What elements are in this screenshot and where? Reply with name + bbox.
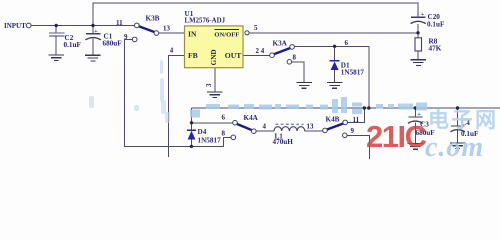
wire C2 stems — [55, 26, 57, 34]
wire FB left and down — [169, 56, 185, 158]
junction dot (D4 anode / bottom bus) — [190, 145, 193, 148]
wire bus corner down to D4 node — [191, 108, 193, 123]
svg-text:D4: D4 — [198, 128, 207, 136]
wire ON/OFF pin5 to C20/R8 junction — [250, 32, 419, 34]
svg-text:4: 4 — [170, 47, 174, 55]
svg-text:6: 6 — [345, 39, 349, 47]
svg-text:ON/OFF: ON/OFF — [214, 31, 239, 38]
wire D4 anode stem — [191, 140, 193, 147]
wire C4 output stems — [457, 108, 459, 126]
junction dot (K3A pin6 / bus) — [367, 106, 370, 109]
svg-text:470uH: 470uH — [273, 138, 294, 146]
svg-text:8: 8 — [222, 129, 226, 137]
capacitor C2 — [49, 33, 65, 36]
junction dot (input/C2) — [55, 24, 58, 27]
svg-text:4: 4 — [263, 123, 267, 131]
junction dot (bus/C3) — [414, 106, 417, 109]
svg-text:IN: IN — [188, 29, 197, 38]
svg-text:0.1uF: 0.1uF — [64, 41, 82, 49]
svg-text:1N5817: 1N5817 — [198, 137, 222, 145]
svg-text:6: 6 — [222, 114, 226, 122]
svg-text:电子网: 电子网 — [428, 109, 499, 132]
svg-text:K4A: K4A — [244, 114, 259, 122]
watermark light blue vertical smudges — [89, 60, 170, 123]
capacitor C4 (output) — [450, 126, 465, 132]
junction dot (K4B pin11 / bus) — [363, 106, 366, 109]
capacitor C20 — [411, 17, 426, 23]
ground (K3A pin8) — [296, 83, 312, 89]
svg-text:+: + — [417, 112, 420, 118]
svg-text:c.om: c.om — [425, 132, 484, 163]
wire output bus — [192, 107, 500, 109]
junction dot (bus/C4) — [456, 106, 459, 109]
diode D4 1N5817 — [187, 130, 196, 139]
wire D1 cathode stem — [334, 46, 336, 60]
wire C3 output stems — [414, 108, 416, 117]
svg-text:8: 8 — [293, 53, 297, 61]
wire K3A pin6 right and down to bus — [294, 46, 369, 108]
wire R8 stems — [417, 33, 419, 38]
ground (C3) — [408, 144, 424, 150]
capacitor C1 (electrolytic) — [85, 34, 101, 40]
ground (D1) — [327, 83, 343, 89]
junction dot (D1/pin6 wire) — [333, 45, 336, 48]
svg-text:K3B: K3B — [146, 14, 160, 22]
wire L1 to K4B pin13 — [305, 130, 323, 132]
svg-text:+: + — [421, 12, 424, 18]
svg-text:2 4: 2 4 — [256, 47, 265, 55]
wire C1 stems — [92, 26, 94, 34]
svg-text:9: 9 — [124, 33, 128, 41]
svg-text:3: 3 — [205, 83, 213, 87]
diode D1 1N5817 — [330, 61, 340, 70]
ground (U1 GND) — [207, 92, 223, 98]
wire U1 GND stem — [214, 55, 216, 68]
svg-text:47K: 47K — [429, 44, 442, 52]
wire K3B pin13 to IN — [159, 32, 185, 34]
inductor L1 470uH — [274, 124, 305, 131]
svg-text:FB: FB — [188, 51, 198, 60]
svg-text:+: + — [94, 29, 97, 35]
svg-text:INPUT: INPUT — [4, 22, 26, 30]
resistor R8 — [415, 38, 422, 51]
svg-text:0.1uF: 0.1uF — [427, 20, 445, 28]
svg-text:11: 11 — [116, 19, 123, 27]
ground (R8) — [411, 60, 427, 66]
svg-text:1N5817: 1N5817 — [341, 69, 365, 77]
junction dot (D4 top node) — [190, 121, 193, 124]
wire K4B pin11 up to bus — [347, 108, 364, 122]
svg-text:680uF: 680uF — [103, 39, 123, 47]
wire D4 cathode stem — [191, 123, 193, 130]
svg-text:GND: GND — [210, 49, 218, 65]
wire K4A pin4 to L1 — [256, 130, 274, 132]
wire top rail — [93, 3, 418, 26]
wire OUT to K3A pin4 — [243, 55, 270, 57]
wire K4B pin9 down-right off image — [347, 135, 369, 159]
wire K3B pin9 down-left to bottom bus — [124, 39, 231, 146]
svg-text:13: 13 — [307, 122, 315, 130]
junction dot (pin5 wire/C20/R8) — [416, 31, 419, 34]
svg-text:LM2576-ADJ: LM2576-ADJ — [185, 18, 226, 25]
wire K3A pin8 to ground — [292, 62, 304, 83]
ground (C1) — [85, 55, 101, 61]
wire input horizontal — [31, 25, 135, 27]
svg-text:13: 13 — [163, 24, 171, 32]
junction dot (input/C1/top rail) — [91, 24, 94, 27]
wire mini-bus D4 to K4A pin6 — [192, 122, 233, 124]
wire C20 bottom stem — [417, 24, 419, 33]
wire D1 anode stem — [334, 70, 336, 82]
pin 5 inversion bubble (ON/OFF) — [245, 31, 249, 35]
ground (C2) — [49, 55, 65, 61]
svg-text:21IC: 21IC — [366, 119, 427, 154]
ground (C4) — [450, 143, 466, 149]
watermark light blue dashes along bus — [190, 97, 427, 118]
svg-text:9: 9 — [351, 127, 355, 135]
svg-text:OUT: OUT — [225, 51, 241, 60]
capacitor C3 (output electrolytic) — [408, 117, 423, 123]
svg-text:5: 5 — [254, 24, 258, 32]
svg-text:K4B: K4B — [326, 115, 340, 123]
svg-text:K3A: K3A — [273, 40, 288, 48]
svg-text:11: 11 — [353, 116, 360, 124]
